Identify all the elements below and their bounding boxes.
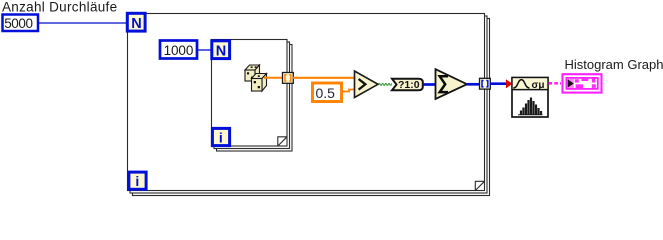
front die top face (252, 74, 267, 79)
iteration terminal i outer (129, 172, 146, 189)
tunnel inner (indexing, orange brackets) (283, 73, 294, 84)
svg-text:?1:0: ?1:0 (398, 79, 420, 91)
wire dice to inner tunnel (264, 77, 283, 79)
front die right face (262, 74, 267, 92)
back die front face (245, 70, 255, 81)
count terminal N inner (212, 41, 230, 60)
svg-text:σμ: σμ (532, 80, 545, 91)
sum node sigma (436, 69, 468, 99)
wire 0.5 to greater node (342, 90, 355, 92)
for-loop outer page3 (133, 19, 490, 196)
for-loop outer page1 (128, 14, 485, 191)
wire boolean greater to select (green dashed) (379, 83, 393, 85)
count terminal N outer (127, 13, 145, 32)
for-loop inner page3 (217, 45, 293, 152)
histogram VI icon (gauss sigma mu + bars) (512, 78, 548, 118)
histogram bars (520, 98, 542, 115)
wire inner tunnel to greater node (293, 77, 355, 79)
control 5000 (Anzahl Durchläufe terminal) (3, 15, 39, 32)
boolean to 0,1 node ?1:0 (392, 79, 423, 92)
svg-text:i: i (135, 173, 139, 189)
svg-text:Anzahl Durchläufe: Anzahl Durchläufe (2, 0, 117, 14)
svg-text:0.5: 0.5 (316, 85, 336, 101)
constant 1000 (160, 41, 197, 59)
front die front face (252, 79, 263, 92)
iteration terminal i inner (212, 128, 229, 145)
for-loop outer page2 (130, 16, 487, 193)
indicator Histogram Graph (cluster terminal) (563, 74, 602, 92)
svg-text:N: N (216, 43, 226, 59)
wire 1000 to inner N (197, 49, 212, 51)
for-loop inner page2 (214, 42, 290, 149)
svg-text:1000: 1000 (164, 43, 194, 58)
wire 5000 to outer N (38, 22, 128, 24)
random number dice icon (245, 65, 267, 91)
wire sum to outer tunnel (467, 83, 481, 86)
constant 0.5 (313, 83, 342, 102)
for-loop inner page1 (212, 40, 288, 147)
wire histogram VI to indicator (magenta dashed cluster wire) (549, 82, 562, 85)
svg-text:5000: 5000 (4, 16, 32, 31)
red input arrow on histogram VI (506, 79, 513, 88)
wire select to sum (blue) (423, 83, 436, 86)
svg-text:N: N (131, 16, 141, 32)
wire outer tunnel to histogram VI (490, 82, 508, 85)
greater-than node (355, 71, 379, 98)
tunnel outer (indexing, blue brackets) (480, 78, 491, 89)
dog-ear fold outer (475, 181, 484, 190)
svg-text:Histogram Graph: Histogram Graph (565, 57, 663, 72)
svg-text:i: i (219, 130, 223, 146)
dog-ear fold inner (278, 137, 287, 146)
back die top face (245, 65, 260, 70)
back die right face (255, 65, 260, 81)
